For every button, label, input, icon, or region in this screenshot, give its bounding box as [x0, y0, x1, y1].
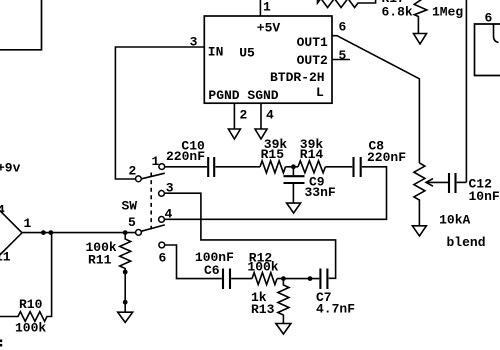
wire R15 to R14 [286, 166, 299, 168]
long vertical wire at right edge down to C12 [465, 0, 467, 182]
svg-text:R15: R15 [261, 147, 285, 162]
pin 2 lead [233, 103, 235, 128]
junction dot C7 [308, 276, 313, 281]
U5 module box [204, 16, 332, 103]
resistor 6.8k (clipped at top) [318, 0, 376, 8]
resistor R13 [278, 279, 289, 324]
svg-text:PGND SGND: PGND SGND [208, 88, 278, 103]
svg-text:R17: R17 [382, 0, 405, 6]
svg-text:2: 2 [240, 108, 248, 123]
ground for R11 [118, 312, 133, 322]
svg-text:6: 6 [339, 20, 347, 35]
svg-text:OUT1: OUT1 [297, 35, 328, 50]
capacitor C10 plates [207, 157, 209, 177]
ground for 1Meg [414, 34, 427, 45]
clipped glyph bottom-left [0, 340, 2, 343]
svg-text:blend: blend [447, 235, 486, 250]
wire C6 to R12 [231, 278, 252, 280]
ground for C9 [287, 203, 301, 213]
svg-text:R14: R14 [300, 147, 324, 162]
pin 5 stub [332, 59, 350, 61]
svg-text:220nF: 220nF [367, 150, 406, 165]
svg-text:IN: IN [208, 45, 224, 60]
junction dot b (R10 feedback) [48, 230, 53, 235]
svg-text:1Meg: 1Meg [432, 5, 463, 20]
svg-text:R11: R11 [88, 253, 112, 268]
contact 3 circle [159, 191, 165, 197]
C9 plates [284, 175, 305, 177]
svg-text:6.8k: 6.8k [382, 5, 413, 20]
blend pot 10kA [414, 163, 425, 226]
wire C12 to right vertical [457, 181, 467, 183]
svg-text:U5: U5 [239, 46, 255, 61]
svg-text:1: 1 [263, 0, 271, 15]
wire op-amp output to contact 5 [22, 232, 135, 234]
junction dot c (R11) [123, 230, 128, 235]
svg-text:BTDR-2H: BTDR-2H [270, 70, 325, 85]
contact 1 circle [159, 164, 165, 170]
wire R14 to C8 [325, 166, 352, 168]
pin 4 ground arrow [255, 129, 267, 139]
resistor R11 [120, 233, 131, 313]
pin 1 lead of U5 [259, 0, 261, 16]
ground for pot [412, 226, 426, 236]
svg-text:R13: R13 [251, 302, 275, 317]
svg-text:220nF: 220nF [166, 149, 205, 164]
svg-text:C6: C6 [204, 263, 220, 278]
capacitor C8 plates [352, 157, 354, 177]
switch dashed link [150, 173, 152, 230]
right module pin hook [494, 24, 499, 43]
svg-text:6: 6 [485, 11, 493, 26]
contact 5 circle [136, 230, 142, 236]
svg-text:4: 4 [0, 203, 5, 218]
svg-text:4: 4 [266, 108, 274, 123]
capacitor C6 plates [222, 269, 224, 290]
svg-text:+9v: +9v [0, 161, 21, 176]
svg-text:11: 11 [0, 250, 11, 265]
wire R12 to C7 [277, 278, 319, 280]
wire contact 6 to C6 [165, 245, 222, 279]
pin 2 ground arrow [228, 129, 240, 139]
switch lever 2-1 [141, 173, 164, 179]
svg-text:5: 5 [128, 215, 136, 230]
svg-text:3: 3 [190, 34, 198, 49]
svg-text:6: 6 [159, 251, 167, 266]
svg-text:1: 1 [24, 216, 32, 231]
C9 lower lead [292, 183, 294, 203]
wire C8 down and left to contact 4 [165, 167, 387, 220]
R11 wire dot 2 [123, 300, 128, 305]
capacitor C7 plates [319, 269, 321, 290]
svg-text:10nF: 10nF [469, 189, 500, 204]
resistor R14 [298, 161, 325, 173]
svg-text:5: 5 [339, 48, 347, 63]
svg-text:4.7nF: 4.7nF [316, 302, 355, 317]
junction dot a [41, 230, 46, 235]
svg-text:10kA: 10kA [439, 213, 470, 228]
contact 6 circle [159, 242, 165, 248]
pin 3 wire from U5 IN to switch contact 2 [115, 47, 204, 179]
svg-text:2: 2 [129, 164, 137, 179]
pot wiper arrow [426, 181, 448, 183]
right-edge module box (clipped) [475, 24, 500, 76]
top-left box corner (clipped component) [0, 0, 42, 50]
svg-text:33nF: 33nF [305, 185, 336, 200]
pin 6 wire diagonal to blend pot [332, 36, 419, 163]
pin 4 lead [260, 103, 262, 128]
capacitor C12 plates [448, 173, 450, 193]
switch lever 5-4 [142, 225, 165, 231]
svg-text:100k: 100k [15, 321, 46, 336]
svg-text:L: L [316, 85, 324, 100]
wire contact3 right, down, to C7 top loop [165, 193, 336, 278]
capacitor C9 lead from junction [292, 167, 294, 175]
contact 4 circle [159, 217, 165, 223]
resistor 1Meg (clipped at top) [414, 0, 427, 34]
junction dot R13 [281, 276, 286, 281]
wire C10 to R15 [215, 166, 260, 168]
resistor R10 with leads [0, 233, 52, 322]
op-amp output section triangle (clipped) [0, 209, 22, 257]
junction node at C9 [291, 164, 296, 169]
R11 wire dot 1 [123, 270, 128, 275]
svg-text:+5V: +5V [257, 21, 281, 36]
svg-text:OUT2: OUT2 [297, 53, 328, 68]
contact 2 circle [136, 176, 142, 182]
svg-text:R10: R10 [19, 297, 43, 312]
resistor R15 [260, 161, 286, 173]
resistor R12 [252, 273, 277, 285]
wire contact1 to C10 [165, 166, 207, 168]
svg-text:SW: SW [122, 199, 138, 214]
ground for R13 [276, 324, 291, 335]
